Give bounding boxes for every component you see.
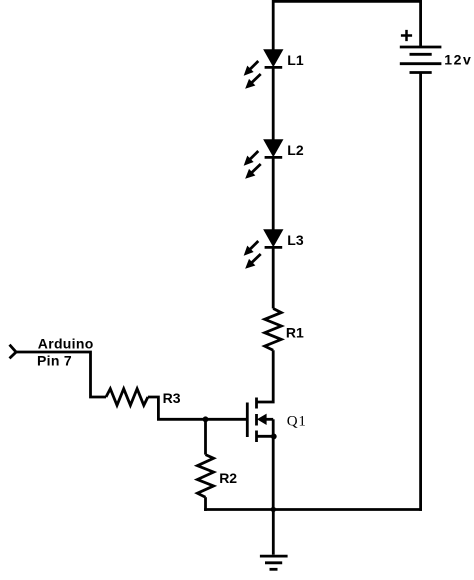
LED L2 light arrows	[245, 151, 261, 178]
ground	[260, 510, 288, 570]
wire bottom rail	[204, 508, 422, 511]
svg-text:R3: R3	[163, 390, 181, 406]
LED L3	[264, 230, 283, 248]
svg-text:Arduino: Arduino	[38, 336, 94, 352]
wire L1 cathode to L2 anode	[272, 67, 275, 140]
junction Q1 source node	[271, 434, 277, 440]
wire R1 to Q1 drain	[257, 350, 274, 402]
LED L2	[264, 140, 283, 158]
wire Q1 source to bottom rail	[272, 436, 275, 509]
resistor R3	[106, 389, 148, 406]
LED L3 light arrows	[245, 241, 261, 268]
resistor R2	[197, 455, 213, 498]
svg-text:12v: 12v	[444, 52, 472, 68]
terminal input pin	[10, 345, 17, 359]
svg-text:Pin 7: Pin 7	[37, 352, 72, 368]
wire L2 cathode to L3 anode	[272, 157, 275, 230]
battery plus sign	[401, 30, 412, 41]
junction gate / R2 node	[203, 416, 209, 422]
LED L1	[264, 50, 283, 68]
svg-text:L2: L2	[287, 142, 304, 158]
svg-text:Q1: Q1	[287, 414, 307, 430]
battery B1	[400, 47, 442, 73]
wire R3 to Q1 gate	[148, 397, 246, 419]
wire L3 cathode to R1	[272, 247, 275, 308]
svg-text:L1: L1	[287, 52, 304, 68]
wire input to R3	[16, 352, 106, 397]
LED L1 light arrows	[245, 61, 261, 88]
junction bottom rail node	[271, 507, 276, 512]
svg-text:R2: R2	[219, 470, 237, 486]
wire node to R2	[204, 419, 207, 454]
svg-text:R1: R1	[286, 325, 304, 341]
wire R2 bottom	[204, 497, 207, 511]
svg-text:L3: L3	[287, 232, 304, 248]
wire battery negative rail	[419, 73, 422, 511]
wire top rail (LED anode to battery +)	[273, 1, 420, 50]
resistor R1	[265, 309, 282, 351]
transistor Q1 N-MOSFET	[247, 398, 274, 443]
